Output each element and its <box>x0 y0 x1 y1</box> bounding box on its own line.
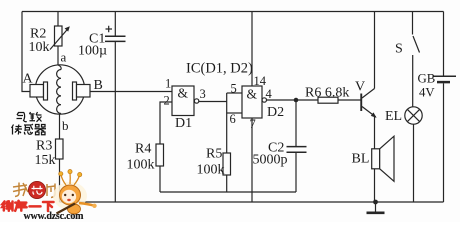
battery GB <box>418 72 457 100</box>
pin 2 wire and label <box>160 94 172 145</box>
switch S <box>395 12 420 108</box>
svg-text:1: 1 <box>165 77 171 91</box>
svg-text:V: V <box>355 80 365 95</box>
wire R3 to bottom rail <box>59 159 61 202</box>
wire R4 bottom <box>159 166 161 192</box>
watermark logo wochipian <box>13 181 55 198</box>
wire emitter to speaker and ground <box>374 117 376 202</box>
svg-text:14: 14 <box>254 74 267 88</box>
char qi4 <box>35 125 47 135</box>
pin 7 wire and label <box>250 117 256 202</box>
resistor R4 <box>127 142 164 173</box>
svg-text:www.dzsc.com: www.dzsc.com <box>24 211 85 222</box>
wire right frame lower (battery minus to bottom rail) <box>443 83 445 202</box>
svg-text:R6 6.8k: R6 6.8k <box>305 86 349 101</box>
svg-text:5: 5 <box>231 82 237 96</box>
svg-text:7: 7 <box>250 117 256 131</box>
pin 6 label <box>230 112 236 126</box>
svg-text:4: 4 <box>266 87 273 101</box>
wire node B to D1 inputs <box>90 91 172 93</box>
watermark red text weiku yixia <box>2 201 53 211</box>
svg-text:BL: BL <box>352 152 370 167</box>
char min <box>30 112 42 122</box>
wire D2 output to R6 <box>267 99 319 101</box>
IC label <box>186 61 253 77</box>
wire sensor bottom to R3 <box>59 114 61 139</box>
op-amp U1 gate D1 (NAND) <box>172 86 199 132</box>
wire right frame upper (battery top) <box>443 12 445 76</box>
node a <box>61 50 67 65</box>
svg-text:100k: 100k <box>127 158 155 173</box>
svg-text:4V: 4V <box>419 86 435 100</box>
node B <box>94 78 103 93</box>
resistor R6 <box>305 86 349 104</box>
wire bottom ground rail <box>60 201 444 203</box>
svg-text:EL: EL <box>385 109 402 124</box>
svg-text:2: 2 <box>164 94 170 108</box>
svg-text:100k: 100k <box>197 163 225 178</box>
junction C2 top <box>294 98 299 103</box>
svg-text:b: b <box>62 118 69 133</box>
lamp EL <box>385 107 422 124</box>
svg-text:R4: R4 <box>135 142 151 157</box>
gas sensor electrode A (left block and plate) <box>30 82 48 100</box>
junction ground node <box>373 200 378 205</box>
svg-text:5000p: 5000p <box>253 153 288 168</box>
svg-text:D2: D2 <box>267 105 284 120</box>
svg-text:3: 3 <box>200 87 206 101</box>
op-amp U2 gate D2 (NAND) <box>242 86 284 120</box>
capacitor C1 <box>78 12 126 59</box>
wire left frame to node A <box>22 12 30 92</box>
transistor V (NPN) <box>355 80 377 118</box>
node b <box>62 118 69 133</box>
svg-text:IC(D1, D2): IC(D1, D2) <box>186 61 253 77</box>
capacitor C2 <box>253 100 307 192</box>
wire D2 input tie <box>227 93 242 153</box>
resistor R2 (variable) <box>29 12 70 66</box>
pin 4 label <box>266 87 273 101</box>
svg-text:15k: 15k <box>35 153 56 168</box>
node A <box>23 72 34 87</box>
resistor R5 <box>197 147 231 178</box>
wire EL to bottom rail <box>413 124 415 202</box>
svg-text:6: 6 <box>230 112 236 126</box>
svg-text:R3: R3 <box>36 139 52 154</box>
svg-text:10k: 10k <box>29 40 50 55</box>
wire R5 bottom <box>226 175 228 192</box>
char qi <box>17 113 27 122</box>
resistor R3 <box>35 139 64 169</box>
wire C1 bottom to ground rail <box>114 41 116 202</box>
svg-text:a: a <box>61 50 67 65</box>
ground <box>367 202 385 213</box>
char chuan <box>12 125 23 135</box>
wire top rail <box>22 11 444 13</box>
svg-text:B: B <box>94 78 103 93</box>
svg-text:&: & <box>247 87 258 102</box>
pin 3 wire and label <box>199 87 227 102</box>
char gan <box>24 124 33 134</box>
speaker BL <box>352 136 395 181</box>
svg-text:100µ: 100µ <box>78 44 107 59</box>
pin 1 label <box>165 77 171 91</box>
svg-text:&: & <box>178 86 189 101</box>
pin 14 wire and label <box>252 12 267 89</box>
gas sensor heater coil <box>57 65 62 114</box>
svg-text:S: S <box>395 42 403 57</box>
svg-text:GB: GB <box>418 72 436 86</box>
gas sensor electrode B (right plate and block) <box>73 82 91 100</box>
wire RC bottom net <box>160 191 296 193</box>
gas sensor body (circle) <box>35 65 84 114</box>
pin 5 label <box>231 82 237 96</box>
watermark mascot <box>53 170 97 215</box>
svg-text:R5: R5 <box>206 147 222 162</box>
svg-text:D1: D1 <box>175 116 192 131</box>
sensor label (Chinese: gas sensor) <box>17 112 42 122</box>
wire collector to top rail <box>374 12 376 89</box>
wire R6 to base <box>338 99 361 101</box>
